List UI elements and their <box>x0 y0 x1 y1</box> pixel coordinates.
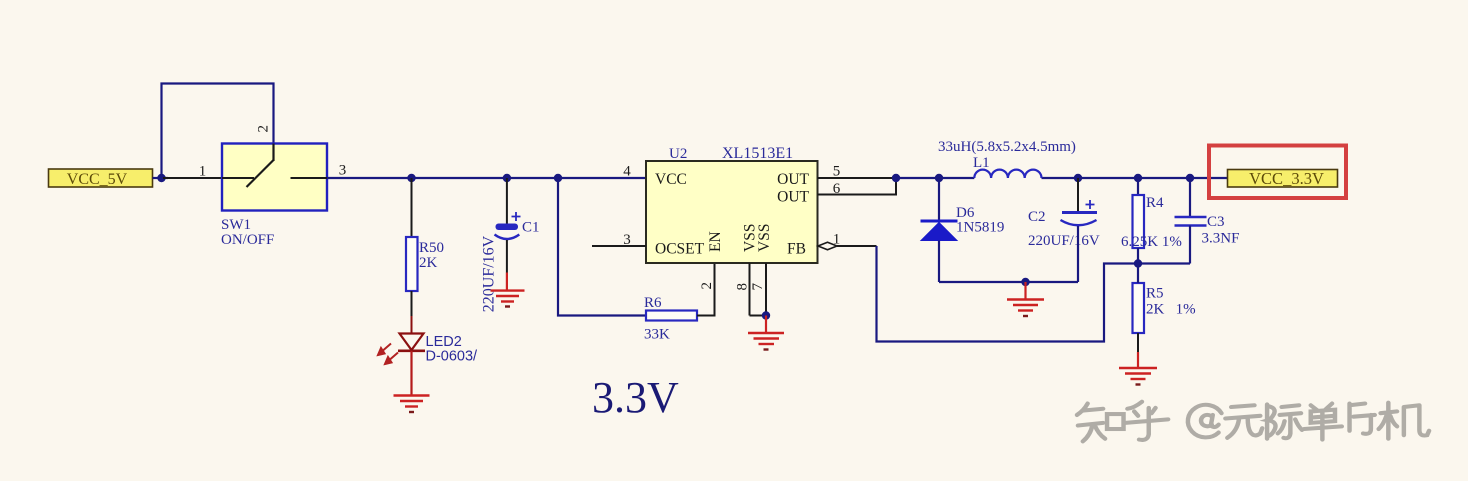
wire SW1 pin3 to U2 pin4 (main rail) <box>327 177 646 179</box>
switch SW1 <box>222 144 327 211</box>
svg-text:6.25K 1%: 6.25K 1% <box>1121 234 1182 250</box>
wire to C3 <box>1189 178 1191 217</box>
capacitor C3 plate a <box>1175 216 1207 219</box>
capacitor C2 positive plate <box>1062 211 1097 214</box>
bottom wire D6 to C2 <box>939 281 1078 283</box>
node A junction dot <box>157 174 165 182</box>
svg-text:5: 5 <box>833 164 841 180</box>
wire D6 to bottom rail <box>938 241 940 283</box>
resistor R50 <box>406 237 418 291</box>
svg-text:2K 1%: 2K 1% <box>1146 302 1196 318</box>
svg-text:3.3NF: 3.3NF <box>1202 231 1240 247</box>
wire R5 to ground <box>1137 333 1139 352</box>
svg-text:OUT: OUT <box>777 189 809 206</box>
svg-text:SW1: SW1 <box>221 217 251 233</box>
wire R6 to U2 pin2 <box>697 263 715 316</box>
svg-text:D-0603/: D-0603/ <box>426 349 479 365</box>
svg-text:OCSET: OCSET <box>655 241 705 258</box>
node D6 tap <box>935 174 943 182</box>
wire loop to switch pin 2 <box>162 84 274 179</box>
ground (VSS) <box>748 333 784 350</box>
svg-text:L1: L1 <box>973 155 990 171</box>
wire C2 to bottom rail <box>1077 226 1079 282</box>
switch left contact <box>222 177 254 179</box>
wire D6 <box>938 178 940 221</box>
svg-text:R5: R5 <box>1146 286 1164 302</box>
svg-text:6: 6 <box>833 181 841 197</box>
svg-text:VCC_3.3V: VCC_3.3V <box>1249 169 1324 188</box>
node pin5/6 join <box>892 174 900 182</box>
svg-text:R4: R4 <box>1146 195 1164 211</box>
node ground tap <box>1021 278 1029 286</box>
ground (D6/C2) <box>1007 300 1044 317</box>
svg-text:3: 3 <box>339 163 347 179</box>
svg-text:C2: C2 <box>1028 209 1046 225</box>
svg-text:33K: 33K <box>644 327 670 343</box>
U2 pin 5 wire <box>818 177 897 179</box>
U2 pins 8,7 VSS stubs <box>749 263 751 316</box>
node R50 tap <box>407 174 415 182</box>
wire C1 to ground <box>506 240 508 273</box>
inductor L1 <box>974 170 1041 178</box>
svg-text:2K: 2K <box>419 255 438 271</box>
svg-text:EN: EN <box>707 231 724 252</box>
svg-text:3: 3 <box>623 232 631 248</box>
svg-text:7: 7 <box>750 283 766 291</box>
switch blade <box>247 160 274 187</box>
svg-text:220UF/16V: 220UF/16V <box>1028 233 1100 249</box>
svg-text:R6: R6 <box>644 295 662 311</box>
svg-text:FB: FB <box>787 241 806 258</box>
node R4 tap <box>1134 174 1142 182</box>
svg-text:VCC_5V: VCC_5V <box>67 171 128 188</box>
node C2 tap <box>1074 174 1082 182</box>
watermark 知乎 @无际单片机 <box>1077 402 1429 442</box>
svg-text:3.3V: 3.3V <box>592 373 679 422</box>
wire VCC_5V to node A <box>153 177 169 179</box>
node C1 tap <box>503 174 511 182</box>
wire FB net <box>877 246 1191 342</box>
ground (C1) <box>491 291 525 307</box>
wire C3 to node <box>1189 226 1191 264</box>
ground (LED2) <box>394 396 430 413</box>
LED2 emission arrow a <box>378 344 391 356</box>
LED2 emission arrow b <box>385 353 398 365</box>
svg-text:VSS: VSS <box>756 224 773 252</box>
resistor R4 <box>1133 195 1145 248</box>
LED2 cathode bar <box>398 349 425 352</box>
resistor R6 <box>646 311 697 321</box>
switch right contact <box>291 177 328 179</box>
wire node A to SW1 pin 1 <box>163 177 222 179</box>
op IC U2 body <box>646 161 818 263</box>
node VSS junction <box>762 311 770 319</box>
wire LED2 to ground <box>410 351 412 396</box>
capacitor C2 plus sign <box>1086 200 1095 209</box>
wire to R4 <box>1137 178 1139 195</box>
red annotation rectangle <box>1209 146 1346 199</box>
U2 pin 3 OCSET stub <box>592 245 646 247</box>
svg-text:R50: R50 <box>419 240 444 256</box>
svg-text:U2: U2 <box>669 146 687 162</box>
wire R4 to node <box>1137 248 1139 264</box>
node C3 tap <box>1186 174 1194 182</box>
svg-text:OUT: OUT <box>777 171 809 188</box>
switch pin 2 entry <box>272 144 274 162</box>
svg-text:C3: C3 <box>1207 214 1225 230</box>
capacitor C1 positive plate <box>496 224 519 231</box>
wire to R50 <box>411 178 413 237</box>
svg-text:33uH(5.8x5.2x4.5mm): 33uH(5.8x5.2x4.5mm) <box>938 139 1076 155</box>
svg-text:ON/OFF: ON/OFF <box>221 232 274 248</box>
LED2 diode triangle <box>400 334 424 351</box>
svg-text:4: 4 <box>623 164 631 180</box>
node R6/EN branch tap <box>554 174 562 182</box>
wire down to R6 <box>558 178 646 316</box>
svg-text:1N5819: 1N5819 <box>956 220 1004 236</box>
ground (R5) <box>1119 368 1157 385</box>
svg-text:VCC: VCC <box>655 171 687 188</box>
wire U2 out rail to VCC_3.3V <box>896 177 974 179</box>
svg-text:C1: C1 <box>522 220 540 236</box>
wire to C1 <box>506 178 508 224</box>
power port VCC_5V <box>49 169 153 188</box>
resistor R5 <box>1133 283 1145 333</box>
diode D6 triangle <box>921 223 957 241</box>
diode D6 cathode bar <box>921 220 958 223</box>
node R4/R5 divider <box>1134 259 1142 267</box>
capacitor C2 curved plate <box>1061 220 1097 225</box>
U2 pin 1 FB input arrow <box>818 242 837 250</box>
wire node to R5 <box>1137 264 1139 284</box>
wire to C2 <box>1077 178 1079 212</box>
capacitor C3 plate b <box>1175 224 1207 227</box>
U2 pin 6 wire <box>818 178 897 195</box>
wire R50 to LED2 <box>411 291 413 316</box>
capacitor C1 curved plate <box>495 235 520 240</box>
svg-text:8: 8 <box>735 283 751 291</box>
power port VCC_3.3V <box>1228 169 1338 188</box>
svg-text:2: 2 <box>256 125 272 133</box>
capacitor C1 plus sign <box>512 212 521 221</box>
svg-text:XL1513E1: XL1513E1 <box>722 145 793 162</box>
svg-text:1: 1 <box>199 164 207 180</box>
svg-text:220UF/16V: 220UF/16V <box>481 235 498 312</box>
wire VSS to ground <box>765 316 767 334</box>
svg-text:2: 2 <box>699 282 715 290</box>
wire FB pin <box>837 245 877 247</box>
wire to ground <box>1024 282 1026 300</box>
